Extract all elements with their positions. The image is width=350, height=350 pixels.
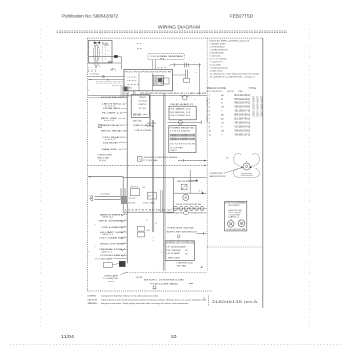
svg-text:P2 CN1: P2 CN1 — [147, 123, 156, 125]
svg-text:5: 5 — [147, 220, 148, 222]
svg-text:KEY BD: KEY BD — [133, 121, 143, 123]
transformer terminal dots column — [105, 47, 107, 60]
svg-text:DOOR LOCK MOTOR SW: DOOR LOCK MOTOR SW — [176, 204, 201, 206]
svg-text:3: 3 — [209, 103, 211, 105]
svg-text:DLB RELAY: DLB RELAY — [103, 141, 119, 144]
svg-text:NOTE: NOTE — [137, 277, 144, 279]
svg-text:P8: P8 — [185, 254, 188, 256]
svg-text:Y: Y — [221, 111, 223, 113]
left stub wire below EOC — [88, 97, 127, 99]
svg-text:o: o — [108, 54, 110, 56]
small dot right of box E — [201, 266, 202, 267]
svg-text:K-4: K-4 — [148, 196, 151, 198]
latch wire end dot — [189, 180, 197, 182]
wire row to lock motor — [173, 192, 206, 194]
svg-text:NO NC: NO NC — [129, 203, 137, 205]
vertical wire to latch area — [189, 170, 191, 193]
svg-text:OVEN LAMP: OVEN LAMP — [104, 274, 119, 277]
svg-text:1C 2C: 1C 2C — [129, 198, 137, 200]
svg-text:11/04: 11/04 — [61, 334, 75, 339]
svg-text:4: 4 — [209, 107, 211, 109]
connector blob at box D left edge — [121, 196, 127, 203]
svg-text:c c c: c c c — [158, 67, 167, 69]
box D inner relay small box 1 — [130, 189, 139, 196]
diagram border top — [87, 37, 262, 39]
svg-text:OVEN LIGHT: OVEN LIGHT — [98, 155, 114, 157]
svg-text:x: x — [195, 213, 196, 215]
svg-text:OR: OR — [221, 107, 225, 109]
svg-text:o o o: o o o — [108, 281, 114, 283]
lower control board box D — [123, 177, 173, 212]
wires EOC to clock box — [133, 91, 135, 95]
svg-text:T: T — [221, 134, 223, 136]
svg-text:RELAY BOARD P1: RELAY BOARD P1 — [171, 103, 195, 106]
braided pair band — [96, 81, 124, 83]
svg-text:DOOR SW N.O.: DOOR SW N.O. — [101, 97, 126, 99]
svg-text:CLOCK: CLOCK — [139, 101, 148, 103]
box D inner relay small box 2 — [147, 192, 156, 199]
svg-text:NO 1 COLOR CD -: NO 1 COLOR CD - — [207, 91, 223, 93]
control module box C — [169, 126, 196, 153]
svg-text:c: c — [158, 189, 159, 191]
door lock motor circle right — [238, 220, 245, 227]
tick on neutral wire — [107, 78, 109, 81]
EOC left edge pin hatch — [121, 86, 129, 97]
door lock switch contact circles row — [174, 207, 204, 211]
svg-text:WARNING:: WARNING: — [88, 302, 98, 305]
wire bus under transformer — [89, 56, 122, 58]
convection motor rotor circle — [243, 163, 250, 170]
pin row entering control — [112, 84, 124, 86]
svg-text:o: o — [108, 50, 110, 52]
svg-text:BU: BU — [221, 119, 224, 121]
svg-text:8: 8 — [209, 122, 211, 124]
svg-text:10: 10 — [209, 130, 212, 132]
svg-text:9. energized door (active): 9. energized door (active) — [210, 66, 228, 69]
svg-text:Publication No: 5995420972: Publication No: 5995420972 — [62, 14, 119, 19]
svg-text:18GA-300V-105C: 18GA-300V-105C — [259, 96, 262, 117]
svg-text:2: 2 — [209, 99, 211, 101]
svg-text:SEE NOTE 5 - DOOR SHOWN CLOS: SEE NOTE 5 - DOOR SHOWN CLOSED — [144, 280, 185, 282]
svg-text:WW 240V: WW 240V — [168, 257, 181, 259]
svg-text:RF 1500W: RF 1500W — [167, 250, 181, 252]
transformer secondary winding ellipse — [95, 45, 98, 62]
left perforation dotted line — [40, 29, 42, 332]
svg-text:VFD: VFD — [139, 97, 147, 99]
svg-text:AM: AM — [108, 61, 113, 64]
supply wire L1 — [88, 76, 124, 78]
tick and end dot on section wire — [183, 159, 185, 162]
svg-text:K1 BAKE 2-2: K1 BAKE 2-2 — [171, 108, 192, 111]
svg-text:FEB27T5D: FEB27T5D — [230, 14, 253, 19]
svg-text:6. L1 to T1 - 120V/240: 6. L1 to T1 - 120V/240 — [210, 57, 228, 60]
svg-text:dangerous operation. Verify: dangerous operation. Verify proper opera… — [101, 302, 189, 305]
svg-text:x: x — [111, 218, 112, 220]
svg-text:LF 1250/2500W: LF 1250/2500W — [167, 246, 186, 248]
svg-text:c: c — [88, 67, 89, 69]
svg-text:GRN-18GA-10-GN-18: GRN-18GA-10-GN-18 — [235, 129, 251, 132]
wire from motor label to coil — [224, 168, 242, 173]
svg-text:ORN-16GA-4-OR-16: ORN-16GA-4-OR-16 — [235, 106, 251, 109]
svg-text:BROIL RELAY K2: BROIL RELAY K2 — [101, 130, 128, 133]
diagram border left — [86, 38, 88, 291]
svg-text:HI-LIMIT (+t): HI-LIMIT (+t) — [102, 111, 122, 114]
lock motor circle — [183, 194, 189, 200]
svg-text:COOLING FAN: COOLING FAN — [100, 254, 121, 257]
part number left dashed tick — [208, 296, 210, 307]
svg-text:P3: P3 — [160, 59, 165, 61]
svg-text:P-4 8 PIN: P-4 8 PIN — [171, 147, 184, 149]
svg-text:T1 T2 T3 T4 T5 T6: T1 T2 T3 T4 T5 T6 — [170, 144, 196, 146]
dashed wire lower — [127, 271, 207, 273]
svg-text:16GA-600V-105C: 16GA-600V-105C — [256, 96, 259, 117]
svg-text:x: x — [177, 213, 178, 215]
small component box at divider — [137, 157, 142, 162]
vertical wire right of transformer — [120, 57, 122, 69]
convection motor lower winding — [234, 169, 260, 178]
wire from box D top right — [173, 176, 206, 178]
svg-text:W: W — [221, 99, 223, 101]
svg-text:M: M — [112, 70, 114, 72]
svg-text:LEGEND:: LEGEND: — [88, 296, 97, 298]
svg-text:P-5 CN3 LAMP: P-5 CN3 LAMP — [96, 257, 114, 260]
double dashed rule under title — [57, 30, 288, 32]
svg-text:240V 3.1: 240V 3.1 — [101, 252, 112, 254]
panel left border continuation — [206, 247, 208, 272]
svg-text:PROBE JACK: PROBE JACK — [103, 107, 121, 110]
convection motor coil left horn — [234, 154, 241, 167]
bus pair wires right — [163, 93, 165, 271]
section divider dashed line — [88, 164, 207, 166]
svg-text:x2: x2 — [147, 230, 150, 232]
lock wire marks — [202, 192, 204, 194]
svg-text:1. Bk-BLACK, W-WHT: 1. Bk-BLACK, W-WHT — [210, 42, 226, 45]
svg-text:+: + — [95, 224, 97, 226]
box C dense terminal block rows — [170, 134, 194, 140]
vertical wires label box to EOC — [152, 60, 154, 69]
supply wire N — [88, 79, 124, 81]
svg-text:BROIL ELEMENT: BROIL ELEMENT — [99, 221, 124, 223]
diagram border right — [262, 38, 264, 308]
svg-text:”: ” — [153, 239, 154, 243]
svg-text:10: 10 — [171, 334, 178, 339]
svg-text:P-7 (14 GA): P-7 (14 GA) — [144, 159, 158, 162]
svg-text:oo: oo — [143, 114, 150, 116]
box D inner double vertical wires — [160, 190, 162, 212]
capacitor element vertical — [184, 69, 186, 78]
svg-text:o-o 2.4: o-o 2.4 — [105, 139, 115, 141]
svg-text:11: 11 — [209, 134, 212, 136]
svg-text:88:88: 88:88 — [133, 113, 141, 117]
svg-text:x: x — [88, 251, 89, 253]
bus pair wires center — [151, 120, 153, 232]
ground symbol small — [153, 286, 156, 289]
bracket contact pair — [184, 63, 188, 68]
transformer primary winding ellipse — [94, 43, 100, 63]
svg-text:11. relay NO on a door Swit: 11. relay NO on a door Switch bd at NO l… — [210, 72, 260, 75]
svg-text:RLY-1: RLY-1 — [131, 187, 139, 189]
transformer lead taper — [94, 63, 99, 66]
svg-text:SW 2.5A: SW 2.5A — [98, 156, 110, 159]
svg-text:SURFACE UNIT CONTROL BD: SURFACE UNIT CONTROL BD — [166, 242, 194, 245]
door lock cam oval — [183, 211, 188, 214]
door lock motor circle left — [228, 221, 235, 228]
EOC left edge dark blob — [124, 87, 128, 91]
svg-text:Label all wires prior to: Label all wires prior to disconnection w… — [101, 298, 207, 301]
svg-text:c-c: c-c — [137, 43, 142, 45]
svg-text:BAKE RELAY K1: BAKE RELAY K1 — [102, 124, 125, 127]
svg-text:FAN MOTOR 120V: FAN MOTOR 120V — [210, 175, 226, 178]
svg-text:CN-4 PINS: CN-4 PINS — [135, 130, 153, 132]
svg-text:P6: P6 — [185, 250, 188, 252]
svg-text:7. control: P 2: 7. control: P 2 — [210, 60, 224, 63]
transformer core dotted line — [102, 42, 104, 62]
svg-text:GN: GN — [221, 130, 225, 132]
svg-text:K3 CONV 4-1: K3 CONV 4-1 — [171, 115, 192, 117]
svg-text:8. Lock all SW: 8. Lock all SW — [210, 64, 222, 66]
svg-text:CN-2: CN-2 — [171, 150, 178, 152]
switch symbol in left rows — [99, 125, 102, 128]
bottom left small box — [104, 262, 113, 267]
svg-text:TOD CLEAN SW: TOD CLEAN SW — [99, 237, 124, 240]
svg-text:P-12: P-12 — [139, 108, 147, 110]
EOC left inner dotted rows — [128, 76, 138, 78]
svg-text:7: 7 — [209, 119, 211, 121]
svg-text:POWER RELAY BD: POWER RELAY BD — [170, 127, 195, 130]
terminal block blob — [114, 55, 117, 57]
main bus wire left — [126, 93, 128, 263]
svg-text:P-9 BK-14 (SEE TABLE): P-9 BK-14 (SEE TABLE) — [150, 282, 178, 285]
notes panel left border — [206, 38, 208, 247]
wire row with pilot lamp — [167, 121, 201, 123]
svg-text:TAN-18GA-11-T-18: TAN-18GA-11-T-18 — [235, 133, 251, 136]
svg-text:...: ... — [158, 269, 160, 271]
svg-text:1: 1 — [209, 95, 211, 97]
svg-text:LST TR: LST TR — [227, 91, 234, 93]
svg-text:K6: K6 — [143, 187, 145, 189]
svg-text:318046135 rev.A: 318046135 rev.A — [212, 299, 259, 304]
diagram border bottom — [87, 290, 212, 292]
svg-text:VIO-18GA-9-V-18: VIO-18GA-9-V-18 — [235, 125, 251, 128]
svg-text:4. 240 VAC BK-BK: 4. 240 VAC BK-BK — [210, 51, 224, 54]
svg-text:WIRING DIAGRAM: WIRING DIAGRAM — [158, 25, 200, 30]
vertical wire right column — [199, 65, 201, 95]
svg-text:x x: x x — [199, 191, 203, 193]
bottom dotted tear line — [10, 344, 341, 346]
svg-text:W1 W2 BK1 R1 R2 Y1 OR1 BU1 GY1: W1 W2 BK1 R1 R2 Y1 OR1 BU1 GY1 V1 BR1 GN… — [140, 93, 207, 95]
right perforation dotted line — [309, 29, 311, 332]
diamond junction on L1 — [102, 75, 105, 78]
convection motor side terminal dots — [241, 167, 243, 169]
svg-text:CN1: CN1 — [127, 88, 132, 90]
EOC inner connector hatch — [154, 76, 162, 84]
svg-text:L1 N L2: L1 N L2 — [90, 73, 99, 75]
EOC inner connector sub-box — [153, 75, 163, 85]
svg-text:x: x — [89, 195, 90, 197]
svg-text:WIRE-COL CO-CODE: WIRE-COL CO-CODE — [207, 87, 226, 90]
svg-text:9 PIN: 9 PIN — [147, 126, 155, 128]
svg-text:(MOTORIZED): (MOTORIZED) — [229, 205, 240, 207]
svg-text:.: . — [248, 91, 249, 93]
svg-text:240V 3.1: 240V 3.1 — [102, 234, 113, 236]
svg-text:BR: BR — [221, 115, 224, 117]
plug motor arc symbol — [111, 69, 116, 71]
electronic oven control box — [124, 69, 173, 91]
svg-text:B+: B+ — [227, 157, 230, 159]
svg-text:-60/52/5% L2-BK 240V 50/60H: -60/52/5% L2-BK 240V 50/60Hz — [144, 157, 178, 159]
wire from label box to right — [171, 64, 202, 66]
svg-text:P1 K1 P2 K2 P3 K3 P4 K4 P5 K5: P1 K1 P2 K2 P3 K3 P4 K4 P5 K5 P6 — [125, 72, 172, 74]
svg-text:5: 5 — [209, 111, 211, 113]
latch switch symbol — [181, 184, 187, 190]
svg-text:LOCK MOTOR SW: LOCK MOTOR SW — [226, 229, 245, 231]
svg-text:1 2 3 4 5 6 7 8 9 10 11 12: 1 2 3 4 5 6 7 8 9 10 11 12 — [125, 209, 174, 211]
svg-text:3. Can BROIL/CONVECTION: 3. Can BROIL/CONVECTION — [210, 49, 228, 51]
door lock assembly box — [225, 201, 247, 231]
svg-text:STYLE: STYLE — [249, 87, 256, 90]
svg-text:x: x — [88, 90, 89, 92]
wire to right panel — [178, 160, 207, 162]
wire with junction dot — [88, 176, 123, 178]
svg-text:~: ~ — [195, 71, 197, 75]
svg-text:6: 6 — [209, 115, 211, 117]
svg-text:V: V — [221, 126, 223, 128]
capacitor body small box — [184, 78, 190, 82]
svg-text:+: + — [194, 99, 196, 101]
svg-text:CAM (+): CAM (+) — [229, 216, 240, 219]
svg-text:12. DLB BK on aux (NOTE 9): 12. DLB BK on aux (NOTE 9) 11 - on bake … — [210, 76, 256, 78]
svg-text:9: 9 — [209, 126, 211, 128]
EOC inner dark pin blob — [158, 78, 161, 81]
dash mark right — [189, 282, 193, 284]
notes panel bottom border — [207, 246, 263, 248]
svg-text:GRY-18GA-8-GY-18: GRY-18GA-8-GY-18 — [235, 121, 251, 124]
svg-text:CAUTION:: CAUTION: — [88, 298, 98, 301]
stacked connector boxes right of bus — [138, 226, 145, 231]
svg-text:GY: GY — [221, 122, 225, 124]
svg-text:CONV ELEMENT: CONV ELEMENT — [101, 227, 122, 229]
wire EOC to capacitor — [173, 74, 186, 76]
svg-text:FAN SW -o: FAN SW -o — [102, 148, 122, 151]
svg-text:L1 N L2 (240V): L1 N L2 (240V) — [170, 130, 190, 132]
svg-text:TOUCH PANEL MEMBRANE: TOUCH PANEL MEMBRANE — [150, 55, 184, 58]
svg-text:RED-12GA-3-R-12: RED-12GA-3-R-12 — [235, 102, 251, 105]
diagonal wire to dashed bus — [121, 272, 127, 274]
svg-text:BK: BK — [221, 95, 224, 97]
rounded label box oven control — [148, 53, 184, 59]
oven temp sensor circle — [183, 96, 187, 100]
box D left pin hatch — [121, 188, 128, 200]
divider end dot — [204, 165, 205, 166]
svg-text:G (o): G (o) — [99, 160, 107, 162]
wire lower bus — [89, 62, 122, 64]
svg-text:+: + — [95, 246, 97, 248]
svg-text:LR 1200W: LR 1200W — [167, 253, 180, 255]
power cord receptacle symbols — [88, 70, 96, 72]
svg-text:BRN-18GA-6-BR-18: BRN-18GA-6-BR-18 — [235, 114, 251, 117]
svg-text:LIMITER (x4): LIMITER (x4) — [177, 262, 193, 264]
svg-text:BLK-14GA-1-BK-14: BLK-14GA-1-BK-14 — [235, 94, 251, 97]
svg-text:P11 CN2: P11 CN2 — [144, 203, 155, 205]
svg-text:5. 240 volts: 5. 240 volts — [210, 54, 222, 57]
small contact circle — [177, 235, 180, 238]
svg-text:YEL-16GA-5-Y-16: YEL-16GA-5-Y-16 — [235, 110, 251, 113]
svg-text:Component Switches Shown in: Component Switches Shown in the off posi… — [101, 295, 158, 298]
svg-text:SURF UNIT SW (RF) 6-8: SURF UNIT SW (RF) 6-8 — [167, 231, 198, 233]
svg-text:o-o 2.4: o-o 2.4 — [104, 120, 114, 122]
clock display module box — [131, 95, 149, 118]
svg-text:240 VAC: 240 VAC — [177, 264, 188, 267]
svg-text:+: + — [169, 64, 171, 67]
svg-text:DSPLY: DSPLY — [139, 104, 148, 106]
transformer terminal circles — [104, 44, 106, 46]
svg-text:8: 8 — [156, 223, 157, 225]
svg-text:SELECTOR SW: SELECTOR SW — [100, 243, 122, 245]
svg-text:K2 BROIL 3-1: K2 BROIL 3-1 — [171, 112, 192, 114]
transformer dark bowtie mark — [94, 41, 100, 44]
EOC inner small box right — [164, 78, 169, 84]
svg-text:P-LOCK: P-LOCK — [101, 194, 111, 196]
svg-text:14GA-600V-105C: 14GA-600V-105C — [252, 96, 255, 117]
relay module box B — [169, 106, 196, 120]
EOC inner divider vertical wires — [138, 73, 140, 91]
svg-text:CONNECTOR CODES: CONNECTOR CODES — [206, 97, 208, 123]
convection motor coil right horn — [252, 154, 259, 167]
wire stubs from EOC bottom to box C — [148, 95, 150, 126]
svg-text:CGA: CGA — [238, 90, 242, 93]
svg-text:BLU-18GA-7-BU-18: BLU-18GA-7-BU-18 — [235, 118, 251, 121]
bottom left connector dark block — [119, 261, 125, 266]
surface unit box E — [165, 241, 194, 261]
svg-text:+: + — [176, 99, 178, 101]
svg-text:10. Bake ckt W-2: 10. Bake ckt W-2 — [210, 69, 224, 72]
svg-text:OVEN VENT 240V BK: OVEN VENT 240V BK — [167, 228, 195, 230]
svg-text:CONVECTION: CONVECTION — [210, 173, 223, 175]
svg-text:M: M — [185, 196, 187, 200]
svg-text:WHT-14GA-2-W-14: WHT-14GA-2-W-14 — [235, 98, 251, 101]
svg-text:2. OVN DOOR SW (o): 2. OVN DOOR SW (o) — [210, 46, 225, 48]
svg-text:o-o: o-o — [137, 48, 142, 50]
svg-text:R: R — [221, 103, 223, 105]
svg-text:NOTES: ALL WIRING = (SHOWN) =: NOTES: ALL WIRING = (SHOWN) = (Ckt board… — [210, 40, 250, 43]
svg-text:x: x — [161, 251, 162, 253]
svg-text:N: N — [99, 66, 101, 68]
transformer box — [89, 40, 113, 63]
wire row below EOC — [88, 94, 207, 96]
